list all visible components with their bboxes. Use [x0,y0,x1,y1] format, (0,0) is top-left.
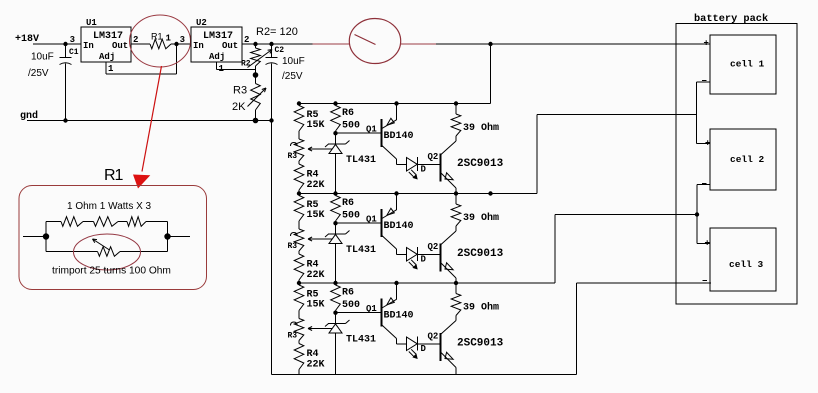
svg-text:/25V: /25V [28,68,49,79]
wire to ammeter (red segment left) [313,43,350,45]
svg-text:R4: R4 [307,260,319,271]
Q1 collector stage2 [382,236,397,250]
svg-text:22K: 22K [307,270,325,281]
red circle annotation around R1 [130,15,191,67]
resistor 39 Ohm stage1 [454,101,458,105]
svg-text:R2: R2 [241,60,251,69]
wire +18V input [33,43,81,45]
svg-text:1: 1 [108,64,114,74]
junction gnd/C1 [63,118,67,122]
svg-text:500: 500 [342,300,360,311]
R1 detail trimpot [46,251,98,253]
junction +18V/C1 [63,42,67,46]
R1 detail red ellipse around trimpot [74,234,141,270]
svg-text:R6: R6 [342,108,354,119]
junction R2 top [253,42,257,46]
svg-text:U1: U1 [86,18,97,28]
cell 3 minus mark [703,280,708,282]
wire to cell2-/cell3+ node [555,214,697,216]
LED D stage1 [407,158,418,172]
resistor R6 stage2 [331,196,341,222]
resistor R1 lead left [131,43,150,45]
red annotation line from R1 to detail box [142,66,162,172]
svg-text:BD140: BD140 [384,221,414,232]
svg-text:R1: R1 [104,167,124,184]
junction R6/TL431/Q1-base stage1 [333,131,337,135]
resistor R6 stage3 [331,285,341,311]
svg-text:cell 1: cell 1 [730,59,765,70]
svg-text:1 Ohm 1 Watts X 3: 1 Ohm 1 Watts X 3 [67,201,152,212]
Q1 emitter arrow (PNP) stage1 [387,118,394,125]
wire Q1 base stage3 [336,312,382,314]
svg-text:15K: 15K [307,210,325,221]
svg-text:1: 1 [166,34,172,44]
Q1 emitter riser stage2 [394,191,398,195]
capacitor C2 [271,44,273,58]
Q2 collector diagonal stage2 [441,231,456,245]
LED D stage2 [407,248,418,262]
stage rail wire 4 [272,374,577,376]
resistor R5 stage2 [294,196,304,222]
Q1 collector stage3 [382,325,397,339]
trimpot R3 designator stage3 [291,322,298,326]
svg-text:3: 3 [70,35,75,45]
svg-text:2SC9013: 2SC9013 [457,248,504,260]
resistor R1 lead right [171,43,191,45]
svg-text:TL431: TL431 [346,155,376,166]
resistor 39 Ohm stage2 [454,191,458,195]
wire rail4 riser [576,283,578,375]
svg-text:cell 2: cell 2 [730,154,765,165]
svg-text:Out: Out [222,41,238,51]
trimpot R3 stage2 [294,229,304,251]
svg-text:39 Ohm: 39 Ohm [463,212,499,224]
svg-text:500: 500 [342,211,360,222]
wire from ammeter (red segment right) [401,43,437,45]
svg-text:22K: 22K [307,360,325,371]
ammeter needle [355,35,376,45]
trimpot R3 stage1 [294,139,304,161]
trimpot R3 stage3 [294,319,304,341]
junction at cell2-/cell3+ vertical [695,212,699,216]
battery pack outer box [676,24,797,305]
gnd bus vertical wire [271,121,273,375]
svg-text:TL431: TL431 [346,245,376,256]
resistor R4 stage1 [294,164,304,190]
wire cell1 minus [697,81,711,83]
Q2 emitter arrow (NPN) stage1 [445,173,453,180]
wire cell1-cell2 connector [696,82,698,144]
wire to cell3 minus [577,282,712,284]
svg-text:R6: R6 [342,198,354,209]
junction R6/TL431/Q1-base stage3 [333,311,337,315]
transistor Q1 BD140 stage2 [380,209,382,237]
LED emission arrows stage3 [409,352,414,357]
wire riser to stage1 top rail [490,44,492,104]
junction R1 out / U1 Adj [174,42,178,46]
U2 Adj wire [216,62,218,70]
svg-text:39 Ohm: 39 Ohm [463,302,499,314]
transistor Q1 BD140 stage1 [380,119,382,147]
svg-text:BD140: BD140 [384,131,414,142]
svg-text:Q1: Q1 [366,304,377,314]
R1 detail left node dot [43,233,49,239]
svg-text:10uF: 10uF [282,56,305,67]
svg-text:+18V: +18V [15,34,39,45]
Q2 emitter arrow (NPN) stage3 [445,352,453,359]
svg-text:R2= 120: R2= 120 [256,26,298,38]
svg-text:TL431: TL431 [346,335,376,346]
svg-text:Q1: Q1 [366,125,377,135]
svg-text:R4: R4 [307,349,319,360]
R1 detail series resistor a [61,217,83,227]
svg-text:C1: C1 [69,48,79,57]
Q1 emitter arrow (PNP) stage3 [387,298,394,305]
svg-text:D: D [421,344,427,354]
svg-text:D: D [421,164,427,174]
svg-text:15K: 15K [307,300,325,311]
ammeter circle [349,19,400,64]
Q2 emitter arrow (NPN) stage2 [445,263,453,270]
svg-text:3: 3 [180,35,185,45]
R1 detail red rounded box [19,186,207,290]
svg-text:R6: R6 [342,288,354,299]
transistor Q2 2SC9013 stage2 [440,244,442,272]
Q1 emitter diagonal stage3 [382,299,397,308]
junction R2/R3/U2-Adj [253,72,259,78]
Q2 emitter diagonal stage3 [441,353,456,368]
transistor Q2 2SC9013 stage1 [440,154,442,182]
svg-text:2SC9013: 2SC9013 [457,158,504,170]
resistor R4 stage3 [294,344,304,370]
stage rail wire 2 [299,193,537,195]
resistor R5 stage1 [294,106,304,132]
wire rail2 riser to battery mid1 [536,115,538,194]
cell 2 box [710,129,776,190]
wire cell2-cell3 connector [696,185,698,244]
resistor R6 stage1 [331,106,341,132]
svg-text:R3: R3 [288,332,298,341]
junction R6/TL431/Q1-base stage2 [333,221,337,225]
wire top rail to battery plus [436,43,710,45]
svg-text:/25V: /25V [282,71,303,82]
wire LED to Q2 base stage1 [418,163,441,165]
wire LED to Q2 base stage2 [418,253,441,255]
svg-text:10uF: 10uF [31,52,54,63]
Q1 emitter riser stage1 [394,101,398,105]
svg-text:trimport 25 turns 100 Ohm: trimport 25 turns 100 Ohm [52,266,171,277]
svg-text:C2: C2 [275,46,285,55]
svg-text:In: In [193,41,204,51]
svg-text:22K: 22K [307,180,325,191]
Q2 emitter diagonal stage1 [441,173,456,188]
capacitor C1 [65,44,67,58]
wire rail3 riser [554,215,556,284]
R1 detail right lead [168,236,191,238]
shunt regulator TL431 stage3 [335,313,337,324]
svg-text:R3: R3 [288,152,298,161]
TL431 ref wire stage3 [308,328,332,330]
regulator U1 LM317 box [81,27,131,62]
svg-text:cell 3: cell 3 [729,259,764,270]
stage rail wire 3 [299,282,555,284]
wire LED to Q2 base stage3 [418,343,441,345]
svg-text:500: 500 [342,121,360,132]
svg-text:Adj: Adj [209,52,225,62]
gnd rail wire [27,120,272,122]
stage rail wire 1 [299,103,491,105]
trimpot R3 designator stage2 [291,233,298,237]
stage1 junction rail/R6 [333,101,337,105]
svg-text:R4: R4 [307,170,319,181]
R1 detail right vertical wire [167,222,169,252]
resistor 39 Ohm stage3 [454,281,458,285]
R1 detail series resistor b [94,217,119,227]
R1 detail left lead [23,236,46,238]
cell 2 minus mark [702,183,707,185]
R1 detail series resistor c [127,217,146,227]
wire Q1 base stage1 [336,132,382,134]
svg-text:R1: R1 [151,32,163,42]
svg-text:2SC9013: 2SC9013 [457,338,504,350]
svg-text:39 Ohm: 39 Ohm [463,122,499,134]
stage1 junction rail/R5 [297,101,301,105]
resistor R5 stage3 [294,285,304,311]
Q1 emitter diagonal stage1 [382,120,397,129]
Q2 emitter diagonal stage2 [441,263,456,278]
cell 1 box [710,35,776,94]
svg-text:R3: R3 [233,85,247,97]
wire U2 out [242,43,313,45]
svg-text:Q1: Q1 [366,215,377,225]
LED D stage3 [407,337,418,351]
potentiometer R3 [255,75,257,84]
LED emission arrows stage2 [409,262,414,267]
transistor Q2 2SC9013 stage3 [440,333,442,361]
Q1 emitter diagonal stage2 [382,210,397,219]
svg-text:Adj: Adj [99,52,115,62]
red annotation arrowhead [133,175,150,189]
cell 3 box [710,228,776,291]
svg-text:Q2: Q2 [428,242,439,252]
svg-text:Q2: Q2 [428,152,439,162]
shunt regulator TL431 stage1 [335,133,337,144]
cell 1 minus mark [702,80,707,82]
wire cell2 minus [697,184,710,186]
Q1 emitter riser stage3 [394,281,398,285]
svg-text:BD140: BD140 [384,311,414,322]
junction rail2 extra [488,191,492,195]
svg-text:15K: 15K [307,120,325,131]
trimpot R3 designator stage1 [291,143,298,147]
Q1 emitter arrow (PNP) stage2 [387,208,394,215]
svg-text:U2: U2 [196,18,207,28]
R1 detail right node dot [164,233,170,239]
junction gnd/C2 bus [269,118,273,122]
junction C2 top [269,42,273,46]
R1 detail left vertical wire [45,222,47,252]
svg-text:Out: Out [112,41,128,51]
transistor Q1 BD140 stage3 [380,299,382,327]
junction top wire / stage1 riser [488,42,492,46]
wire Q1 base stage2 [336,222,382,224]
TL431 ref wire stage1 [308,148,332,150]
wire to cell1-/cell2+ node [537,114,696,116]
regulator U2 LM317 box [191,27,242,62]
TL431 ref wire stage2 [308,238,332,240]
svg-text:2K: 2K [232,101,246,113]
stage3 junction rail/R5 [297,281,301,285]
svg-text:D: D [421,254,427,264]
Q2 collector diagonal stage3 [441,321,456,335]
trimpot R3 wiper arrow stage2 [308,238,332,240]
junction gnd/R3 [253,118,259,124]
svg-text:R3: R3 [288,242,298,251]
Q1 collector stage1 [382,146,397,160]
resistor R1 body [150,39,171,49]
svg-text:+: + [704,39,709,49]
LED emission arrows stage1 [409,172,414,177]
stage2 junction rail/R6 [333,191,337,195]
stage3 junction rail/R6 [333,281,337,285]
wire cell2 plus [697,143,711,145]
U1 Adj feedback wire [105,62,107,74]
svg-text:Q2: Q2 [428,332,439,342]
Q2 collector diagonal stage1 [441,141,456,155]
trimpot R3 wiper arrow stage1 [308,148,332,150]
stage2 junction rail/R5 [297,191,301,195]
shunt regulator TL431 stage2 [335,223,337,234]
resistor R4 stage2 [294,254,304,280]
trimpot R3 wiper arrow stage3 [308,328,332,330]
svg-text:In: In [83,41,94,51]
potentiometer R2 [255,44,257,48]
wire cell3 plus [697,243,710,245]
R1 detail top wire [46,221,61,223]
